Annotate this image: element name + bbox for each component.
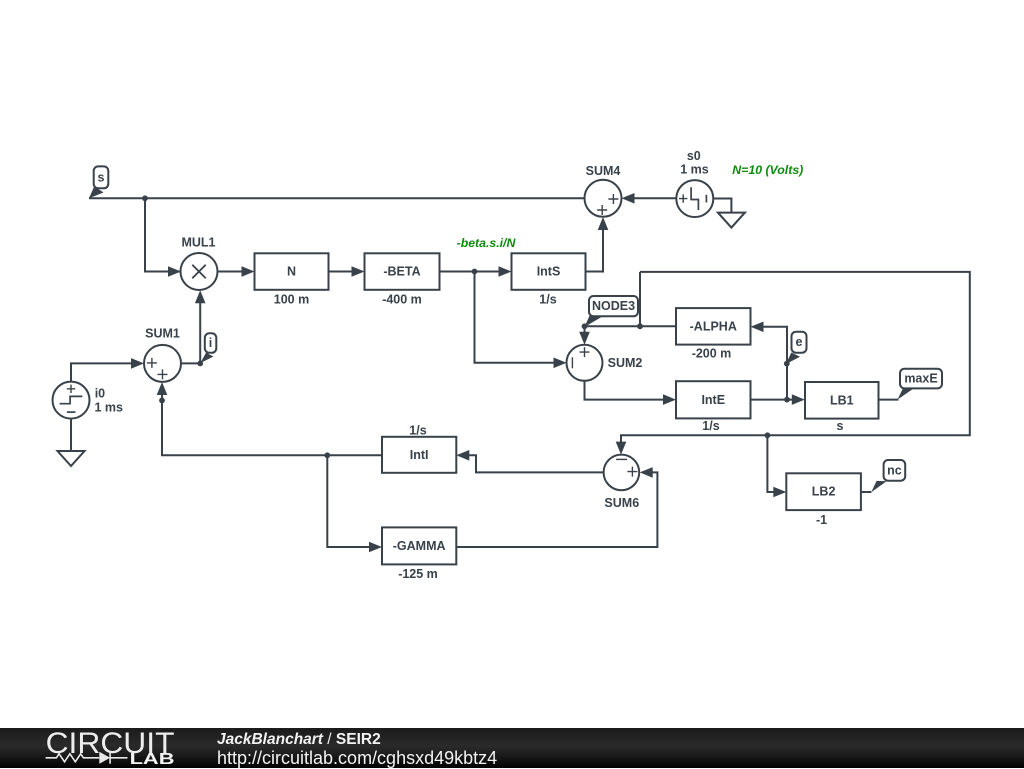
svg-text:-beta.s.i/N: -beta.s.i/N (457, 236, 517, 250)
svg-text:LAB: LAB (130, 751, 175, 768)
svg-text:i0: i0 (95, 386, 105, 400)
svg-text:-GAMMA: -GAMMA (393, 539, 446, 553)
svg-text:1 ms: 1 ms (680, 163, 709, 177)
svg-text:SUM6: SUM6 (604, 496, 639, 510)
svg-text:LB1: LB1 (830, 393, 854, 407)
svg-text:SUM4: SUM4 (586, 164, 621, 178)
svg-text:IntS: IntS (537, 265, 561, 279)
svg-text:-1: -1 (816, 513, 827, 527)
svg-text:1 ms: 1 ms (95, 400, 124, 414)
svg-text:100 m: 100 m (274, 292, 309, 306)
svg-text:N=10 (Volts): N=10 (Volts) (732, 163, 803, 177)
svg-text:-125 m: -125 m (398, 567, 438, 581)
svg-text:i: i (209, 336, 212, 350)
svg-text:SUM1: SUM1 (145, 326, 180, 340)
svg-text:MUL1: MUL1 (181, 235, 215, 249)
svg-text:s: s (98, 170, 105, 184)
svg-text:s0: s0 (687, 149, 701, 163)
svg-text:-400 m: -400 m (382, 292, 422, 306)
svg-text:SUM2: SUM2 (608, 356, 643, 370)
svg-text:IntE: IntE (701, 393, 725, 407)
svg-text:nc: nc (887, 463, 902, 477)
svg-text:1/s: 1/s (539, 292, 556, 306)
svg-text:IntI: IntI (410, 448, 429, 462)
svg-text:s: s (837, 419, 844, 433)
svg-text:-ALPHA: -ALPHA (690, 319, 737, 333)
svg-text:-200 m: -200 m (692, 346, 732, 360)
svg-text:1/s: 1/s (702, 419, 719, 433)
svg-text:-BETA: -BETA (383, 265, 420, 279)
svg-text:e: e (796, 335, 803, 349)
svg-text:maxE: maxE (904, 372, 937, 386)
svg-text:NODE3: NODE3 (592, 299, 635, 313)
svg-text:1/s: 1/s (409, 423, 426, 437)
svg-text:N: N (287, 265, 296, 279)
svg-text:LB2: LB2 (812, 485, 836, 499)
